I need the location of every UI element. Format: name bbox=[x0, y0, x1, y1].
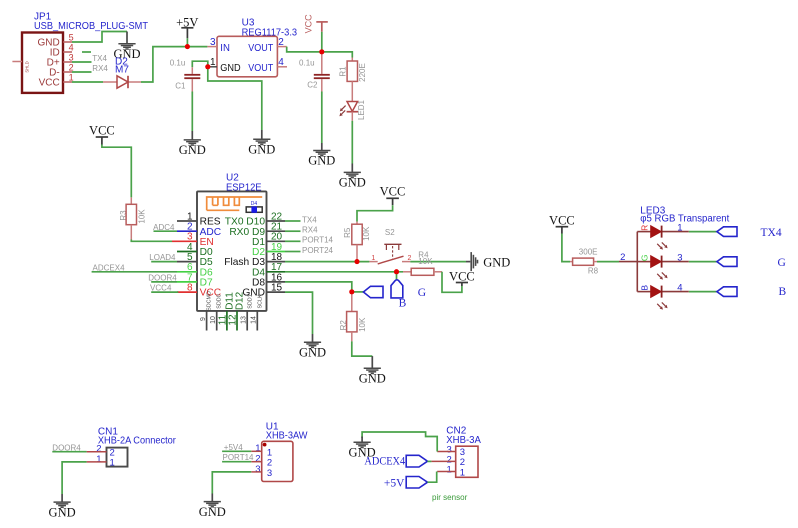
ESP12E right pin stubs bbox=[267, 221, 286, 292]
svg-text:VCC: VCC bbox=[449, 269, 475, 283]
wire JP1 pin5 to GND bbox=[72, 32, 127, 43]
wire R8 to LED3 bbox=[597, 261, 619, 263]
wire R2 to GND bbox=[352, 341, 373, 356]
ground GND below U3 bbox=[248, 130, 275, 157]
svg-text:1: 1 bbox=[371, 255, 375, 262]
connector CN2 XHB-3A bbox=[446, 425, 481, 477]
ESP12E chip icon D4 bbox=[246, 201, 262, 213]
wire C2 to GND bbox=[321, 92, 323, 144]
connector CN1 XHB-2A bbox=[98, 427, 177, 469]
junction at D4 net bbox=[394, 269, 399, 274]
svg-text:SDCMD: SDCMD bbox=[206, 291, 212, 311]
svg-text:R1: R1 bbox=[338, 66, 347, 77]
power VCC for LED3 bbox=[549, 214, 575, 234]
net label G bbox=[418, 287, 426, 299]
wire +5V flag to CN2 pin1 bbox=[428, 472, 437, 483]
wire U1 pin3 to GND bbox=[212, 472, 251, 494]
wire JP1 VCC to diode bbox=[72, 81, 103, 83]
capacitor C1 0.1u bbox=[170, 58, 201, 91]
ground GND below LED1 bbox=[339, 164, 366, 190]
ESP12E bottom pin stubs bbox=[207, 311, 258, 331]
U1 pin numbers bbox=[255, 443, 260, 475]
connector U1 XHB-3AW bbox=[262, 421, 308, 481]
wire U3 VOUT to VCC node bbox=[287, 47, 322, 52]
svg-text:SDD1: SDD1 bbox=[247, 294, 253, 308]
wire LOAD4 bbox=[151, 261, 177, 263]
resistor R3 10K bbox=[119, 197, 146, 239]
ground GND below U1 bbox=[199, 494, 226, 519]
svg-text:RX4: RX4 bbox=[92, 64, 108, 73]
wire VCC to R8 bbox=[562, 234, 570, 262]
svg-text:M7: M7 bbox=[115, 65, 129, 76]
wire U3 pin1 to GND below bbox=[208, 67, 262, 130]
svg-text:0.1u: 0.1u bbox=[299, 58, 315, 67]
ground GND below R2 bbox=[359, 356, 386, 385]
wire JP1 D- RX4 bbox=[72, 71, 92, 73]
wire +5V4 bbox=[222, 450, 251, 452]
wire JP1 D+ TX4 bbox=[72, 61, 92, 63]
net label PORT14 at U1 bbox=[223, 453, 255, 462]
net label PORT24 bbox=[302, 246, 334, 255]
net label DOOR4 at CN1 bbox=[52, 443, 81, 452]
wire C1 to GND bbox=[191, 92, 193, 132]
svg-text:4: 4 bbox=[69, 43, 74, 53]
ESP12E right pin names bbox=[224, 217, 265, 299]
svg-text:GND: GND bbox=[199, 505, 226, 519]
wire ESP D8 bbox=[285, 282, 352, 292]
svg-text:3: 3 bbox=[267, 468, 272, 479]
wire LED1 to GND bbox=[351, 121, 353, 164]
module U2 ESP12E bbox=[197, 172, 267, 311]
svg-text:GND: GND bbox=[248, 143, 275, 157]
CN1 pin stubs bbox=[87, 452, 107, 462]
net label RX4 right bbox=[302, 226, 318, 235]
resistor R8 300E bbox=[570, 247, 599, 275]
net label LOAD4 bbox=[149, 253, 176, 262]
junction at R5 and D3 bbox=[355, 259, 360, 264]
svg-text:LED1: LED1 bbox=[357, 99, 366, 120]
net flag G pointing left bbox=[363, 286, 383, 297]
wire S2 to GND flag bbox=[410, 261, 466, 263]
JP1 pin names bbox=[37, 37, 59, 88]
ESP12E antenna icon bbox=[207, 197, 263, 210]
net label +5V flag bbox=[384, 477, 428, 490]
svg-text:C1: C1 bbox=[175, 81, 186, 90]
LED3 anode bus bbox=[619, 232, 651, 292]
svg-text:TX4: TX4 bbox=[302, 215, 317, 224]
net label G at LED3 bbox=[778, 257, 786, 269]
svg-text:0.1u: 0.1u bbox=[170, 58, 186, 67]
wire diode to +5V node bbox=[141, 47, 186, 82]
U3 pin stubs bbox=[207, 47, 287, 67]
ground GND below CN1 bbox=[49, 494, 76, 519]
wire +5V node to U3 IN bbox=[187, 46, 207, 48]
CN2 pin stubs bbox=[431, 452, 455, 472]
svg-text:B: B bbox=[399, 298, 407, 310]
svg-text:1: 1 bbox=[677, 223, 682, 234]
resistor R1 220E bbox=[338, 58, 367, 102]
svg-text:GND: GND bbox=[308, 154, 335, 168]
svg-text:+5V: +5V bbox=[384, 478, 405, 490]
net label TX4 right bbox=[302, 215, 317, 224]
svg-text:300E: 300E bbox=[579, 247, 598, 256]
junction at D8 net bbox=[349, 289, 354, 294]
svg-text:2: 2 bbox=[255, 453, 260, 464]
wire ESP GND pin15 bbox=[285, 292, 313, 334]
svg-text:GND: GND bbox=[299, 345, 326, 359]
power VCC above R3 bbox=[89, 124, 115, 145]
svg-text:SCLK: SCLK bbox=[257, 294, 263, 308]
resistor R5 10K bbox=[343, 222, 371, 262]
LED3 green channel pin 3 bbox=[640, 253, 737, 280]
svg-text:3: 3 bbox=[677, 253, 682, 264]
svg-text:GND: GND bbox=[483, 255, 510, 269]
U1 pin stubs bbox=[251, 451, 261, 472]
power VCC right of R4 bbox=[449, 269, 475, 286]
net label +5V4 bbox=[224, 443, 243, 452]
svg-text:XHB-3AW: XHB-3AW bbox=[266, 431, 308, 442]
svg-text:PORT24: PORT24 bbox=[302, 246, 334, 255]
wire VCC to R5 bbox=[357, 205, 393, 221]
svg-text:1: 1 bbox=[110, 458, 115, 469]
wire pin21 bbox=[285, 230, 301, 232]
svg-text:D12: D12 bbox=[235, 291, 246, 310]
wire ADC4 bbox=[154, 230, 178, 232]
net label TX4 at LED3 bbox=[761, 227, 782, 239]
ground GND below C2 bbox=[308, 143, 335, 168]
power VCC above R5 bbox=[380, 184, 406, 205]
connector JP1 USB_MICROB_PLUG-SMT bbox=[22, 11, 148, 93]
wire DOOR4 bbox=[151, 281, 177, 283]
LED3 blue channel pin 4 bbox=[640, 283, 737, 310]
wire pin19 bbox=[285, 251, 301, 253]
svg-text:GND: GND bbox=[179, 143, 206, 157]
ground flag GND right of S2 bbox=[466, 252, 510, 271]
svg-text:VOUT: VOUT bbox=[248, 63, 273, 74]
ground GND at ESP pin15 bbox=[299, 334, 326, 359]
junction at U3 GND pin1 bbox=[205, 64, 210, 69]
svg-text:C2: C2 bbox=[307, 80, 318, 89]
svg-text:10K: 10K bbox=[418, 257, 433, 266]
net label ADCEX4 flag bbox=[364, 455, 427, 467]
net label PORT14 bbox=[302, 236, 334, 245]
net label B at LED3 bbox=[779, 286, 787, 298]
ESP12E left pin numbers bbox=[187, 211, 193, 293]
svg-text:10K: 10K bbox=[137, 209, 146, 224]
wire pin20 bbox=[285, 240, 301, 242]
net flag B bbox=[391, 280, 407, 310]
svg-text:VCC: VCC bbox=[39, 77, 60, 88]
wire R4 to VCC bbox=[442, 272, 462, 293]
wire ESP D3 to S2 bbox=[285, 261, 369, 263]
svg-text:GND: GND bbox=[220, 63, 240, 74]
wire D4 to B flag bbox=[396, 272, 398, 280]
JP1 shield stub bbox=[12, 61, 22, 63]
U1 pin names bbox=[267, 447, 272, 479]
svg-text:USB_MICROB_PLUG-SMT: USB_MICROB_PLUG-SMT bbox=[34, 21, 148, 32]
svg-text:G: G bbox=[640, 254, 650, 261]
svg-text:4: 4 bbox=[677, 283, 682, 294]
wire VCC4 bbox=[151, 291, 178, 293]
wire ESP D4 bbox=[285, 271, 403, 273]
wire DOOR4 to CN1 bbox=[52, 451, 86, 453]
wire VCC node to R1 bbox=[322, 52, 353, 58]
svg-text:G: G bbox=[778, 257, 786, 269]
CN2 pin numbers bbox=[447, 444, 452, 475]
U1 pin1 marker bbox=[263, 443, 267, 447]
ESP12E bottom pin numbers bbox=[200, 314, 258, 326]
svg-text:1: 1 bbox=[447, 464, 452, 475]
wire U3 pin1 to C1 bbox=[192, 61, 208, 67]
net label DOOR4 bbox=[148, 274, 177, 283]
svg-text:3: 3 bbox=[255, 464, 260, 475]
JP1 pin stubs bbox=[63, 42, 72, 82]
junction at VCC node bbox=[319, 49, 324, 54]
net label RX4 on D- bbox=[92, 64, 108, 73]
wire stub on JP1 pin4 ID bbox=[82, 51, 91, 53]
svg-text:ADCEX4: ADCEX4 bbox=[364, 456, 405, 468]
svg-text:VOUT: VOUT bbox=[248, 43, 273, 54]
JP1 pin numbers bbox=[69, 33, 74, 83]
net label VCC4 bbox=[150, 284, 172, 293]
ESP12E right pin numbers bbox=[271, 211, 283, 293]
ground GND at JP1 pin5 bbox=[113, 32, 140, 62]
svg-text:VCC: VCC bbox=[89, 124, 115, 138]
diode D2 M7 bbox=[103, 56, 141, 88]
svg-text:VCC: VCC bbox=[549, 214, 575, 228]
svg-text:10K: 10K bbox=[358, 317, 367, 332]
svg-text:pir sensor: pir sensor bbox=[432, 492, 467, 502]
resistor R2 10K bbox=[339, 292, 367, 342]
wire R3 to ESP EN bbox=[131, 240, 172, 242]
svg-text:10K: 10K bbox=[362, 226, 371, 241]
svg-text:2: 2 bbox=[460, 457, 465, 468]
svg-text:B: B bbox=[779, 286, 787, 298]
wire CN1 pin1 to GND bbox=[62, 462, 87, 494]
junction dots overlay bbox=[185, 44, 399, 294]
svg-text:VCC: VCC bbox=[303, 14, 313, 34]
ESP12E left pin names bbox=[200, 217, 222, 299]
LED3 pin 2 number bbox=[620, 252, 625, 263]
svg-text:B: B bbox=[640, 285, 650, 291]
svg-text:1: 1 bbox=[460, 467, 465, 478]
svg-text:GND: GND bbox=[49, 505, 76, 519]
svg-text:SHLD: SHLD bbox=[25, 61, 30, 72]
ESP12E left pin stubs bbox=[172, 221, 197, 292]
U3 pin numbers bbox=[210, 37, 284, 68]
CN2 pin names bbox=[460, 447, 465, 479]
switch S2 bbox=[369, 228, 411, 264]
svg-text:1: 1 bbox=[255, 443, 260, 454]
svg-text:PORT14: PORT14 bbox=[223, 453, 255, 462]
svg-text:1: 1 bbox=[96, 454, 101, 465]
ground GND below C1 bbox=[179, 131, 206, 157]
svg-text:R8: R8 bbox=[588, 267, 599, 276]
net label ADC4 bbox=[153, 223, 175, 232]
wire PORT14 at U1 bbox=[222, 461, 251, 463]
svg-text:XHB-2A Connector: XHB-2A Connector bbox=[98, 435, 177, 446]
ESP12E bottom pin names bbox=[206, 291, 263, 311]
svg-text:TX4: TX4 bbox=[761, 227, 782, 239]
net label TX4 on D+ bbox=[92, 54, 107, 63]
svg-text:R: R bbox=[640, 225, 650, 231]
svg-text:PORT14: PORT14 bbox=[302, 236, 334, 245]
wire ADCEX4 bbox=[92, 271, 177, 273]
svg-text:G: G bbox=[418, 287, 426, 299]
wire pin22 bbox=[285, 220, 301, 222]
svg-text:φ5 RGB Transparent: φ5 RGB Transparent bbox=[640, 214, 729, 225]
net label ADCEX4 bbox=[93, 263, 126, 272]
junction at +5V node bbox=[185, 44, 190, 49]
ground GND left of CN2 bbox=[349, 437, 376, 460]
regulator U3 REG1117-3.3 bbox=[217, 17, 297, 77]
svg-text:S2: S2 bbox=[385, 228, 395, 237]
svg-text:R5: R5 bbox=[343, 227, 352, 238]
LED3 label bbox=[640, 206, 729, 225]
note pir sensor bbox=[432, 492, 467, 502]
LED3 red channel pin 1 bbox=[640, 223, 737, 250]
wire D8 to G flag bbox=[352, 291, 364, 293]
svg-text:VCC: VCC bbox=[380, 184, 406, 198]
wire ADCEX4 flag to CN2 pin2 bbox=[428, 460, 432, 462]
svg-text:GND: GND bbox=[359, 372, 386, 386]
svg-text:SDD0: SDD0 bbox=[217, 294, 223, 308]
wire VCC to R3 bbox=[102, 145, 131, 198]
wire CN2 pin3 to GND bbox=[362, 432, 437, 452]
svg-text:220E: 220E bbox=[358, 63, 367, 82]
power VCC above C2 bbox=[303, 14, 328, 52]
svg-text:GND: GND bbox=[339, 176, 366, 190]
capacitor C2 0.1u bbox=[299, 52, 330, 92]
CN1 pin numbers bbox=[96, 444, 101, 465]
svg-text:IN: IN bbox=[220, 43, 230, 54]
power +5V bbox=[176, 15, 198, 46]
LED1 bbox=[339, 99, 366, 120]
svg-text:TX4: TX4 bbox=[92, 54, 107, 63]
resistor R4 10K bbox=[403, 250, 442, 275]
svg-text:RX4: RX4 bbox=[302, 226, 318, 235]
